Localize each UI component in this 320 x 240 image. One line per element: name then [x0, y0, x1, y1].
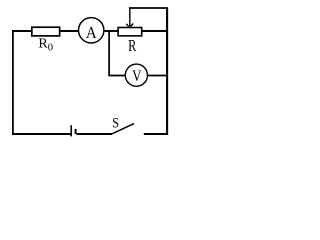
wire bottom-left segment — [12, 133, 70, 135]
svg-text:R: R — [128, 36, 137, 55]
battery short plate — [75, 129, 77, 134]
svg-text:S: S — [112, 116, 119, 132]
wire right vertical — [166, 8, 168, 135]
wire voltmeter right — [147, 75, 167, 77]
battery long plate — [70, 125, 72, 136]
svg-text:V: V — [132, 67, 142, 85]
wire slider top horizontal — [129, 7, 168, 9]
wire battery to switch — [77, 133, 113, 135]
wire R0 to ammeter — [60, 30, 80, 32]
wire rheostat to right vertical — [142, 30, 167, 32]
svg-text:R0: R0 — [38, 37, 53, 54]
resistor R0 box — [32, 27, 60, 36]
wire top-left segment — [12, 30, 32, 32]
wire left vertical — [12, 30, 14, 135]
svg-text:A: A — [86, 23, 97, 42]
rheostat slider arrow — [126, 8, 133, 27]
ammeter A circle — [79, 18, 104, 43]
switch blade — [112, 124, 134, 134]
rheostat R box — [118, 28, 142, 36]
voltmeter V circle — [125, 64, 147, 86]
wire switch right segment — [144, 133, 168, 135]
wire voltmeter left — [108, 75, 126, 77]
wire ammeter to rheostat — [104, 30, 119, 32]
node junction wire down to voltmeter — [108, 31, 110, 76]
